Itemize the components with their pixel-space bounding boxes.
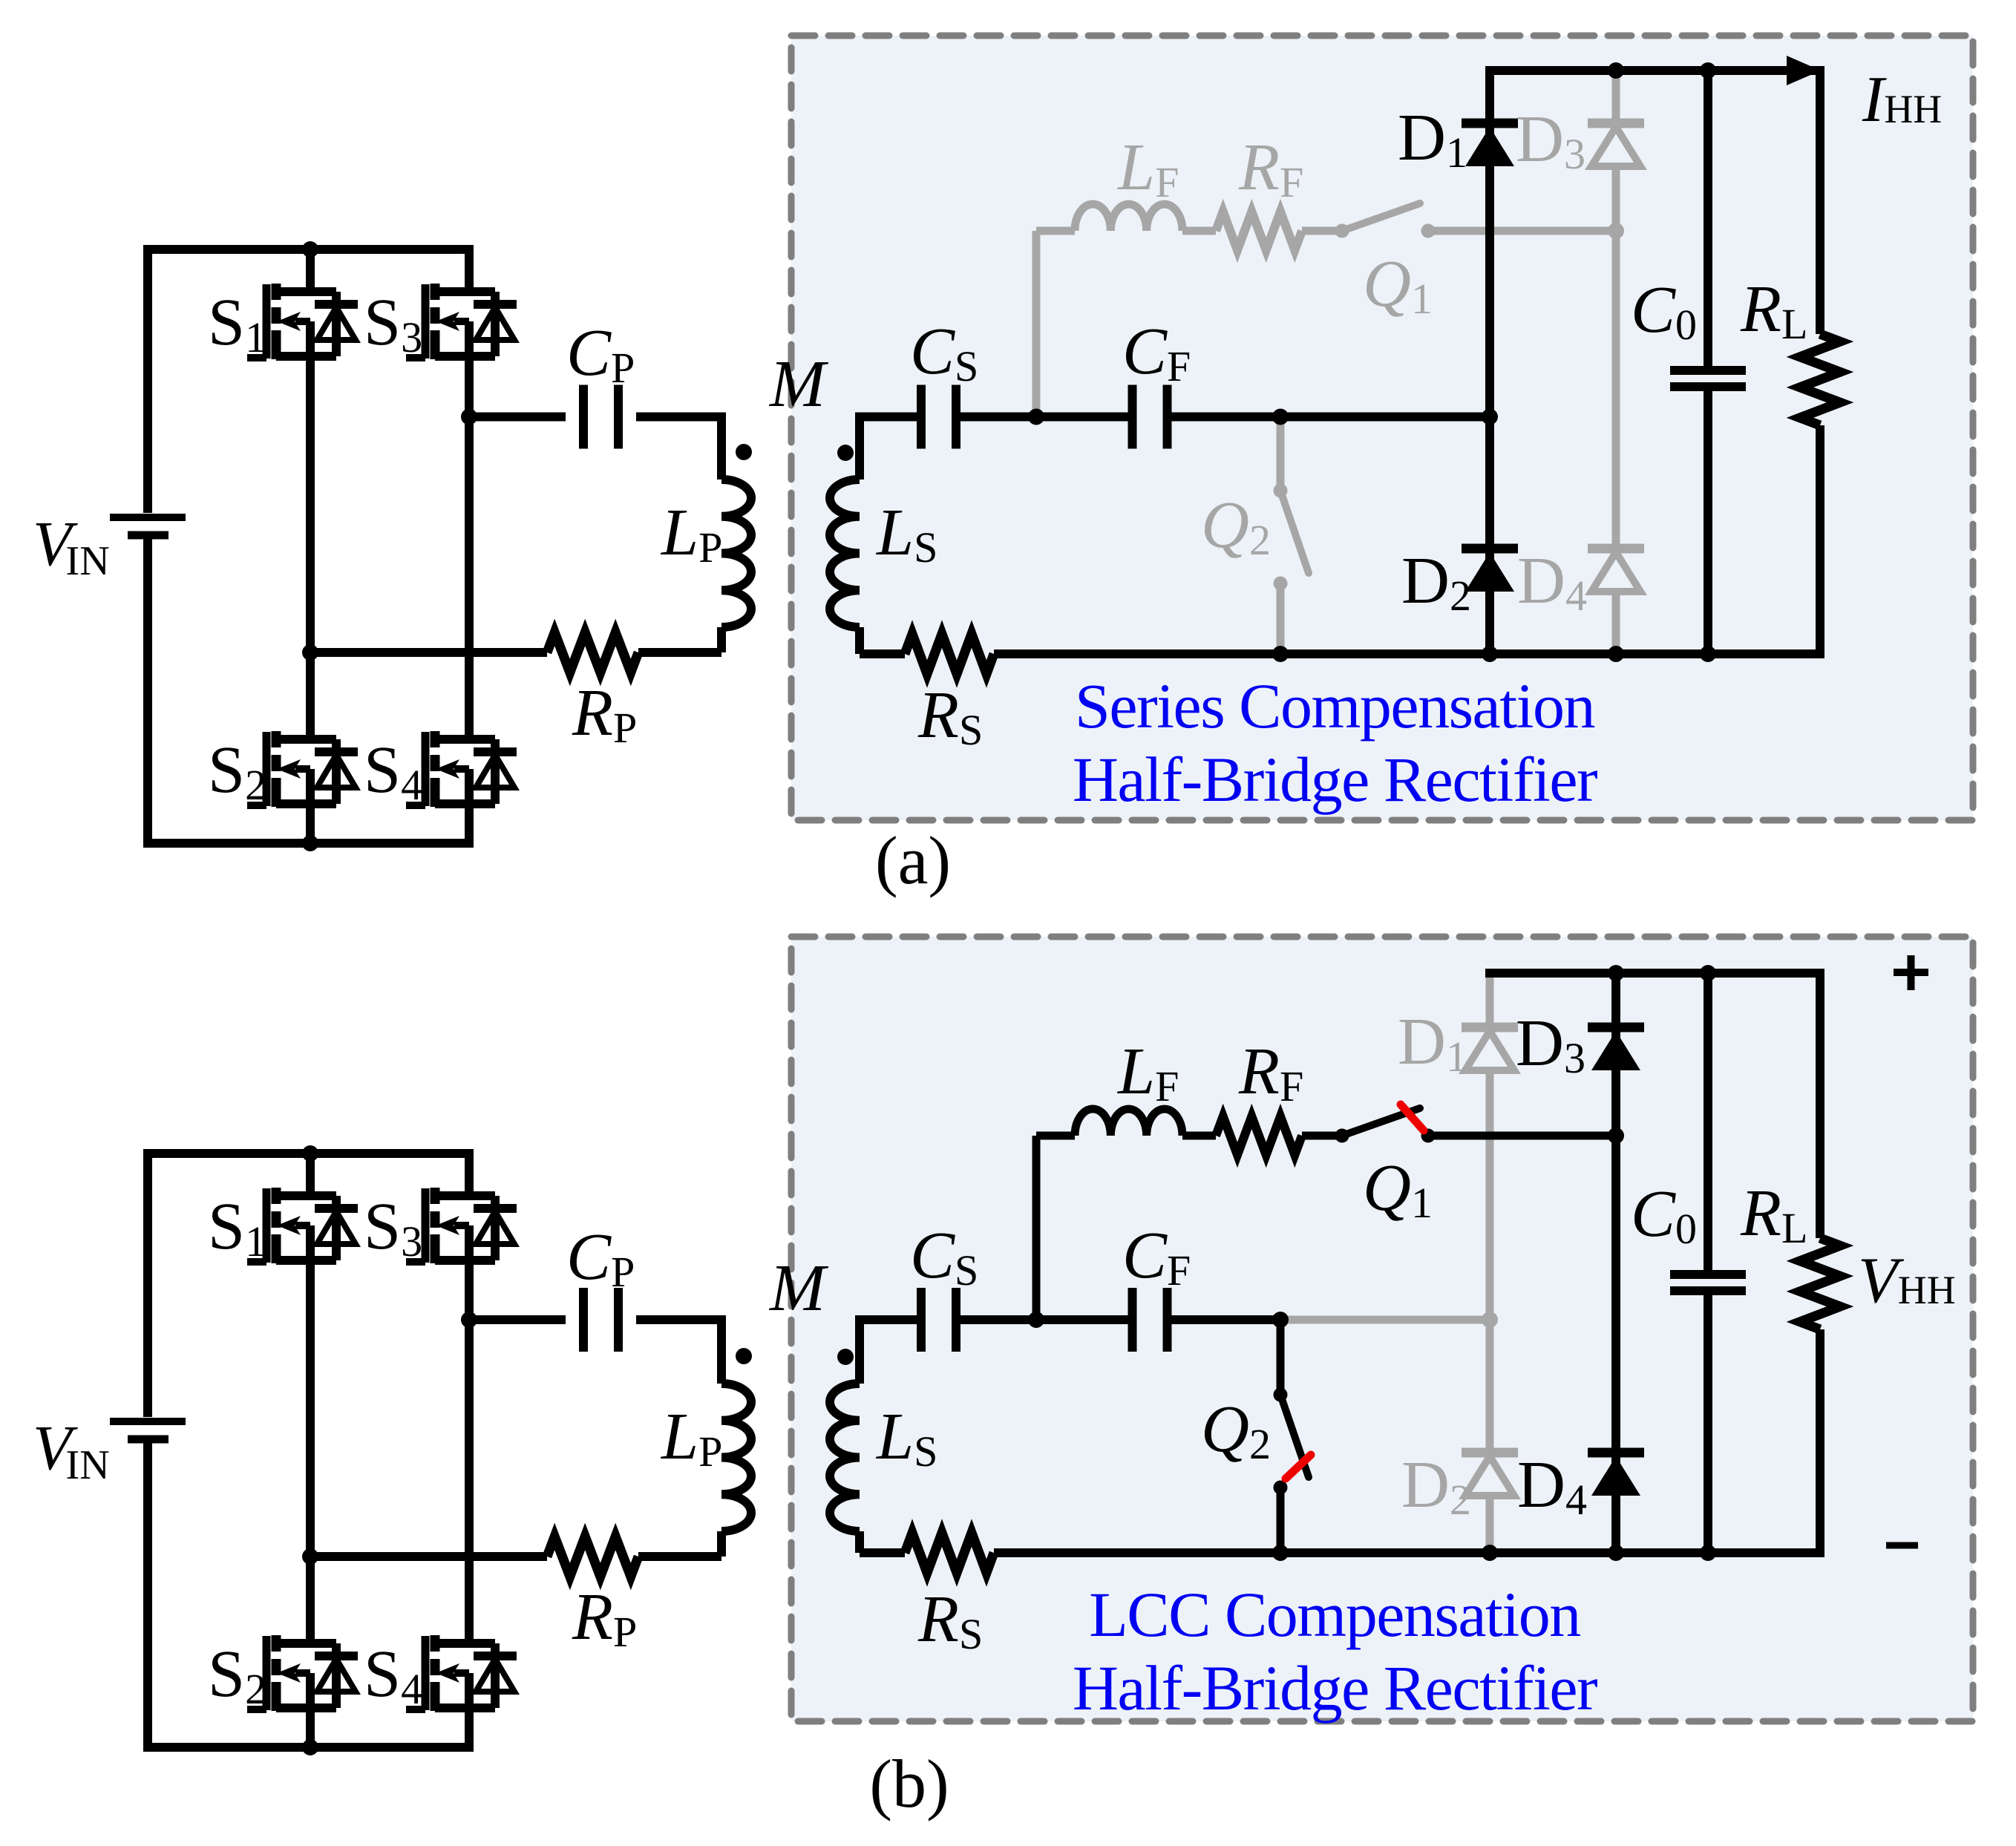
- svg-text:S1: S1: [208, 286, 266, 361]
- svg-text:(a): (a): [875, 822, 951, 898]
- svg-text:VIN: VIN: [33, 1412, 110, 1488]
- svg-text:VIN: VIN: [33, 508, 110, 584]
- svg-text:CP: CP: [566, 316, 635, 392]
- svg-text:CP: CP: [566, 1220, 635, 1296]
- svg-text:S4: S4: [364, 1637, 422, 1713]
- svg-text:LP: LP: [660, 496, 722, 572]
- svg-text:S3: S3: [364, 286, 422, 361]
- svg-text:M: M: [768, 1251, 829, 1325]
- svg-text:Series Compensation: Series Compensation: [1075, 670, 1595, 742]
- svg-text:S4: S4: [364, 733, 422, 809]
- svg-text:S2: S2: [208, 1637, 266, 1713]
- svg-text:(b): (b): [869, 1746, 949, 1822]
- svg-text:S1: S1: [208, 1190, 266, 1266]
- svg-text:RP: RP: [572, 1580, 637, 1656]
- svg-text:Half-Bridge Rectifier: Half-Bridge Rectifier: [1073, 1652, 1597, 1724]
- svg-text:S2: S2: [208, 733, 266, 809]
- svg-text:LP: LP: [660, 1400, 722, 1476]
- svg-text:RP: RP: [572, 676, 637, 752]
- svg-text:LCC Compensation: LCC Compensation: [1089, 1579, 1580, 1650]
- svg-text:M: M: [768, 347, 829, 421]
- svg-text:Half-Bridge Rectifier: Half-Bridge Rectifier: [1073, 744, 1597, 815]
- svg-text:S3: S3: [364, 1190, 422, 1266]
